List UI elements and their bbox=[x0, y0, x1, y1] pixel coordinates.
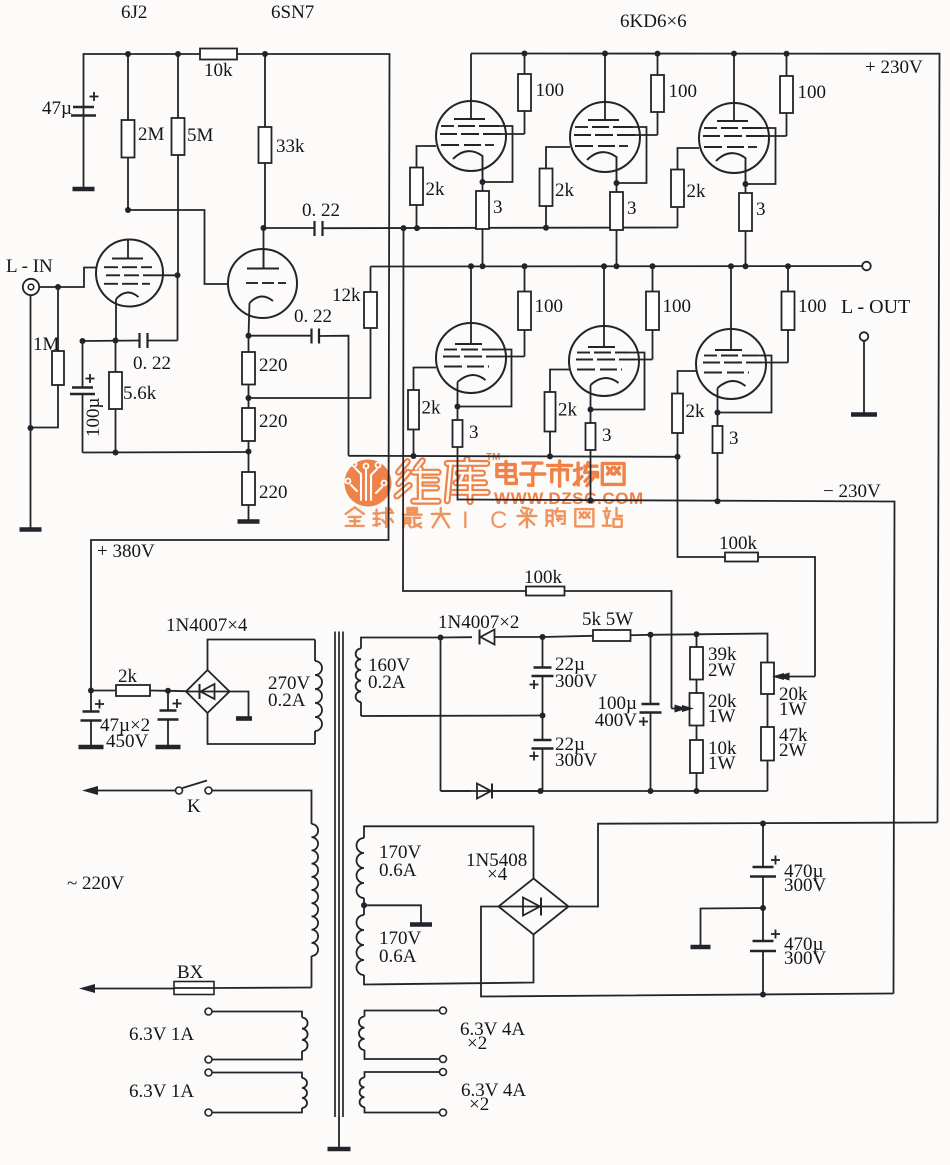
winding 6.3V 1A first bbox=[129, 1008, 308, 1063]
wire plate lead V7 bbox=[603, 266, 605, 326]
svg-text:2k: 2k bbox=[422, 398, 442, 419]
potentiometer 20k 1W right bbox=[761, 663, 808, 721]
wire cathode network to 220 chain bbox=[83, 450, 249, 456]
tube V7 grid g3 row tied to cathode bbox=[577, 353, 645, 410]
resistor 2k grid stopper V3 bbox=[410, 146, 445, 228]
capacitor 0.22 coupling to upper bank bbox=[264, 200, 341, 236]
wire upper grid bus bbox=[323, 225, 678, 231]
resistor 100 screen V7 bbox=[646, 266, 691, 360]
tube V3 screen grid g2 row bbox=[440, 133, 525, 135]
svg-text:3: 3 bbox=[729, 428, 739, 449]
tube V3 control grid g1 row bbox=[441, 144, 494, 146]
svg-text:I: I bbox=[462, 507, 469, 534]
winding 6.3V 4A second bbox=[360, 1069, 527, 1117]
svg-text:300V: 300V bbox=[555, 671, 598, 692]
tube V4 screen grid g2 row bbox=[574, 134, 658, 136]
svg-text:×2: ×2 bbox=[469, 1094, 489, 1115]
svg-text:450V: 450V bbox=[106, 731, 149, 752]
tube V8 screen grid g2 row bbox=[703, 362, 788, 364]
svg-text:3: 3 bbox=[602, 425, 612, 446]
tube V6 plate bbox=[455, 321, 482, 344]
capacitor 0.22 V1 grid bbox=[133, 275, 178, 374]
resistor 100k lower-bank bias feed bbox=[675, 454, 816, 681]
resistor 100 screen V5 bbox=[780, 54, 826, 137]
node V2 cathode bbox=[246, 333, 252, 339]
svg-text:1W: 1W bbox=[708, 753, 736, 774]
resistor 2k supply filter bbox=[91, 666, 168, 696]
resistor 33k bbox=[259, 54, 306, 228]
wire -230V rail bbox=[458, 497, 895, 993]
wire bridge plus to +230 line bbox=[569, 823, 938, 907]
svg-text:100µ: 100µ bbox=[83, 398, 104, 438]
watermark text 电子市场网 bbox=[486, 452, 624, 486]
resistor 5.6k cathode bbox=[109, 341, 157, 453]
capacitor 470µ 300V upper bbox=[750, 821, 827, 909]
tube V1 cathode bbox=[116, 292, 139, 340]
winding primary 220V bbox=[312, 800, 319, 988]
label 6KD6x6 bbox=[620, 11, 687, 32]
resistor 2k grid stopper V4 bbox=[540, 147, 575, 228]
tube V6 6KD6 (lower bank) envelope bbox=[436, 323, 506, 393]
wire +230V rail bbox=[471, 51, 940, 823]
capacitor 47µ filter B bbox=[156, 688, 182, 747]
transformer core bbox=[328, 632, 351, 1150]
wire 2k to bridge left bbox=[168, 690, 186, 692]
rectifier bridge 1N5408x4 bbox=[466, 850, 569, 935]
tube V4 6KD6 (upper bank) envelope bbox=[570, 102, 640, 172]
tube V6 cathode bbox=[455, 375, 486, 410]
label 6J2 bbox=[121, 2, 147, 23]
tube V8 6KD6 (lower bank) envelope bbox=[696, 329, 766, 399]
resistor 1M bbox=[31, 287, 65, 428]
resistor 220 third bbox=[242, 452, 288, 521]
capacitor 100µ cathode bypass bbox=[70, 341, 104, 453]
tube V8 plate bbox=[715, 327, 742, 350]
tube V5 grid g3 row tied to cathode bbox=[704, 128, 776, 184]
svg-text:1N4007×2: 1N4007×2 bbox=[438, 612, 519, 633]
terminal L-OUT bbox=[841, 262, 910, 318]
wire bias top node bbox=[648, 631, 768, 662]
svg-text:+ 230V: + 230V bbox=[865, 57, 923, 78]
node 220 tap1 bbox=[246, 395, 252, 401]
svg-text:L - IN: L - IN bbox=[6, 256, 53, 277]
tube V5 cathode bbox=[716, 153, 749, 187]
svg-text:0.6A: 0.6A bbox=[379, 946, 417, 967]
svg-text:220: 220 bbox=[259, 482, 288, 503]
label 6SN7 bbox=[271, 2, 314, 23]
svg-text:100k: 100k bbox=[524, 567, 563, 588]
wire plate lead V4 bbox=[604, 54, 606, 102]
resistor 100k upper-bank bias feed bbox=[403, 228, 688, 712]
winding 170V 0.6A upper bbox=[357, 826, 534, 905]
resistor 2k grid stopper V6 bbox=[408, 368, 441, 457]
tube V4 cathode bbox=[587, 152, 620, 186]
capacitor 470µ 300V lower bbox=[750, 908, 827, 998]
tube V8 control grid g1 row bbox=[704, 372, 749, 374]
watermark logo circle bbox=[345, 460, 392, 507]
winding 6.3V 4A first bbox=[359, 1007, 525, 1063]
label +380V bbox=[97, 541, 155, 562]
wire switch to primary bbox=[212, 791, 312, 801]
ground input bbox=[20, 527, 42, 532]
resistor 47k 2W bbox=[761, 694, 808, 791]
fuse BX bbox=[79, 962, 312, 995]
tube V5 control grid g1 row bbox=[704, 146, 757, 148]
connector L-IN jack bbox=[6, 256, 53, 295]
tube V8 cathode bbox=[715, 381, 746, 416]
resistor 39k 2W bbox=[690, 634, 737, 693]
resistor 3 cathode V3 bbox=[476, 182, 503, 266]
wire bridge to winding 270V top bbox=[208, 640, 316, 671]
svg-text:400V: 400V bbox=[595, 710, 638, 731]
wire plate lead V6 bbox=[470, 266, 472, 323]
tube V1 grid rows bbox=[104, 267, 178, 284]
svg-text:100: 100 bbox=[798, 82, 827, 103]
svg-text:6J2: 6J2 bbox=[121, 2, 147, 23]
svg-text:2W: 2W bbox=[779, 740, 807, 761]
resistor 100 screen V8 bbox=[782, 266, 827, 363]
wire +380V front-end top rail bbox=[84, 54, 390, 691]
tube V5 6KD6 (upper bank) envelope bbox=[699, 103, 769, 173]
svg-text:1M: 1M bbox=[33, 334, 60, 355]
svg-text:0. 22: 0. 22 bbox=[133, 353, 171, 374]
tube V5 plate bbox=[717, 101, 748, 121]
resistor 12k feedback bbox=[249, 267, 378, 399]
wire doubler return bbox=[440, 638, 442, 792]
node 220 tap2 bbox=[246, 449, 252, 455]
wire plate lead V8 bbox=[730, 266, 732, 329]
node doubler midpoint bbox=[540, 713, 546, 719]
node V2 plate bbox=[261, 225, 267, 231]
node V1 plate bbox=[125, 207, 131, 213]
tube V7 plate bbox=[588, 324, 615, 347]
svg-text:6SN7: 6SN7 bbox=[271, 2, 314, 23]
svg-text:47µ: 47µ bbox=[42, 98, 72, 119]
tube V7 cathode bbox=[588, 378, 619, 413]
svg-text:~ 220V: ~ 220V bbox=[67, 873, 125, 894]
svg-text:300V: 300V bbox=[784, 875, 827, 896]
terminal output ground bbox=[851, 332, 877, 414]
tube V5 screen grid g2 row bbox=[703, 135, 787, 137]
resistor 3 cathode V4 bbox=[610, 183, 637, 266]
node V1 grid2 / 5M bbox=[175, 272, 181, 278]
tube V4 control grid g1 row bbox=[575, 145, 628, 147]
watermark text 全球最大IC采购网站 bbox=[346, 507, 622, 534]
winding 170V 0.6A lower bbox=[357, 905, 534, 984]
watermark text WWW.DZSC.COM bbox=[494, 489, 644, 508]
svg-text:K: K bbox=[187, 796, 201, 817]
wire jack ground to earth bbox=[28, 295, 34, 528]
svg-text:10k: 10k bbox=[204, 60, 233, 81]
resistor 3 cathode V8 bbox=[713, 413, 739, 501]
svg-text:1N4007×4: 1N4007×4 bbox=[166, 615, 248, 636]
node 470µ midpoint / ground bbox=[691, 905, 767, 947]
diode 1N4007 D2 bbox=[441, 784, 541, 799]
resistor 3 cathode V6 bbox=[453, 407, 479, 501]
svg-text:+ 380V: + 380V bbox=[97, 541, 155, 562]
tube V2 plate bbox=[247, 249, 279, 269]
svg-text:0.2A: 0.2A bbox=[268, 690, 306, 711]
svg-text:×4: ×4 bbox=[487, 864, 508, 885]
node 170V center tap bbox=[361, 902, 432, 924]
svg-text:5.6k: 5.6k bbox=[123, 383, 157, 404]
svg-text:100k: 100k bbox=[719, 533, 758, 554]
svg-text:3: 3 bbox=[493, 197, 503, 218]
resistor 5M bbox=[172, 54, 214, 275]
resistor 2M bbox=[122, 54, 165, 210]
potentiometer 20k 1W left bbox=[682, 691, 737, 727]
svg-text:100: 100 bbox=[663, 296, 692, 317]
tube V2 grid row bbox=[246, 282, 286, 284]
tube V3 cathode bbox=[453, 151, 486, 185]
wire bridge right to ground bbox=[230, 692, 253, 719]
resistor 100 screen V3 bbox=[518, 54, 564, 135]
svg-text:6.3V 1A: 6.3V 1A bbox=[129, 1024, 194, 1045]
svg-text:6KD6×6: 6KD6×6 bbox=[620, 11, 687, 32]
capacitor 100µ 400V bbox=[595, 635, 662, 791]
capacitor 0.22 coupling to lower bank bbox=[249, 306, 349, 456]
svg-text:100: 100 bbox=[536, 80, 565, 101]
svg-text:WWW.DZSC.COM: WWW.DZSC.COM bbox=[494, 489, 644, 508]
svg-text:33k: 33k bbox=[276, 136, 305, 157]
wire plate lead V3 bbox=[470, 54, 472, 101]
tube V2 cathode bbox=[249, 296, 274, 335]
tube V7 screen grid g2 row bbox=[576, 359, 653, 361]
label ~220V bbox=[67, 873, 125, 894]
capacitor 22µ 300V upper bbox=[530, 634, 598, 716]
svg-text:12k: 12k bbox=[332, 285, 361, 306]
tube V1 plate bbox=[112, 239, 143, 259]
capacitor 47µ filter A bbox=[79, 691, 105, 748]
svg-text:×2: ×2 bbox=[467, 1033, 487, 1054]
winding 160V 0.2A bbox=[356, 638, 543, 717]
label -230V bbox=[823, 481, 881, 502]
svg-text:100: 100 bbox=[535, 296, 564, 317]
svg-text:300V: 300V bbox=[784, 948, 827, 969]
tube V1 6J2 envelope bbox=[96, 240, 163, 307]
svg-text:220: 220 bbox=[259, 355, 288, 376]
tube V6 screen grid g2 row bbox=[443, 356, 525, 358]
tube V6 control grid g1 row bbox=[444, 366, 489, 368]
tube V8 grid g3 row tied to cathode bbox=[704, 356, 772, 413]
arrow mains upper bbox=[82, 786, 176, 795]
tube V3 grid g3 row tied to cathode bbox=[441, 126, 513, 182]
tube V7 control grid g1 row bbox=[577, 369, 622, 371]
tube V7 6KD6 (lower bank) envelope bbox=[569, 326, 639, 396]
wire bridge to winding 270V bottom bbox=[208, 713, 316, 744]
svg-text:2W: 2W bbox=[708, 660, 736, 681]
rectifier bridge 1N4007x4 bbox=[166, 615, 248, 713]
svg-text:2M: 2M bbox=[138, 124, 165, 145]
resistor 100 screen V4 bbox=[651, 54, 697, 136]
resistor 220 second bbox=[242, 398, 288, 452]
svg-text:6.3V 1A: 6.3V 1A bbox=[129, 1081, 194, 1102]
svg-text:0.6A: 0.6A bbox=[379, 860, 417, 881]
svg-text:3: 3 bbox=[756, 199, 766, 220]
resistor 2k grid stopper V8 bbox=[672, 371, 705, 457]
switch K bbox=[176, 781, 213, 818]
label 47µx2 450V bbox=[100, 715, 150, 752]
svg-text:0. 22: 0. 22 bbox=[294, 306, 332, 327]
capacitor 47µ input decoupling bbox=[42, 92, 98, 189]
resistor 220 first bbox=[242, 336, 288, 398]
svg-text:2k: 2k bbox=[686, 401, 706, 422]
svg-text:3: 3 bbox=[627, 198, 637, 219]
svg-text:1W: 1W bbox=[708, 706, 736, 727]
tube V2 6SN7 envelope bbox=[228, 249, 297, 318]
resistor 10k bbox=[200, 49, 237, 82]
tube V6 grid g3 row tied to cathode bbox=[444, 350, 512, 407]
svg-text:TM: TM bbox=[486, 452, 500, 463]
watermark text 维库 outlined bbox=[397, 459, 487, 502]
svg-text:− 230V: − 230V bbox=[823, 481, 881, 502]
svg-text:0. 22: 0. 22 bbox=[302, 200, 340, 221]
svg-text:5M: 5M bbox=[187, 125, 214, 146]
resistor 10k 1W bbox=[690, 726, 737, 792]
node +380 / 2k bbox=[88, 688, 94, 694]
svg-text:2k: 2k bbox=[426, 179, 446, 200]
svg-text:1W: 1W bbox=[779, 699, 807, 720]
wire V1 cathode node bbox=[80, 338, 139, 345]
capacitor 22µ 300V lower bbox=[530, 716, 598, 792]
resistor 3 cathode V7 bbox=[586, 410, 612, 501]
node rail-2M bbox=[125, 51, 131, 57]
resistor 3 cathode V5 bbox=[739, 184, 766, 266]
tube V3 6KD6 (upper bank) envelope bbox=[436, 101, 506, 171]
winding 270V 0.2A bbox=[268, 640, 322, 745]
wire V1 plate to V2 grid bbox=[128, 210, 229, 284]
svg-text:5k 5W: 5k 5W bbox=[582, 609, 633, 630]
resistor 2k grid stopper V5 bbox=[671, 148, 706, 228]
svg-text:C: C bbox=[490, 507, 507, 534]
svg-text:300V: 300V bbox=[555, 750, 598, 771]
winding 6.3V 1A second bbox=[129, 1069, 307, 1116]
wire input to grid bbox=[40, 268, 98, 291]
svg-text:100: 100 bbox=[798, 296, 827, 317]
svg-text:2k: 2k bbox=[118, 666, 138, 687]
wire bridge minus to -230 line bbox=[481, 907, 894, 997]
svg-text:2k: 2k bbox=[687, 181, 707, 202]
resistor 2k grid stopper V7 bbox=[545, 370, 578, 457]
label +230V bbox=[865, 57, 923, 78]
resistor 100 screen V6 bbox=[518, 266, 563, 357]
svg-text:2k: 2k bbox=[555, 180, 575, 201]
node rail-33k bbox=[262, 51, 268, 57]
svg-text:100: 100 bbox=[669, 81, 698, 102]
ground 220 chain bbox=[238, 519, 260, 524]
svg-text:2k: 2k bbox=[558, 400, 578, 421]
node rail-5M bbox=[175, 51, 181, 57]
wire V2 plate lead bbox=[263, 228, 265, 269]
wire output rail L-OUT bbox=[371, 263, 863, 269]
svg-text:BX: BX bbox=[177, 962, 204, 983]
tube V4 grid g3 row tied to cathode bbox=[575, 127, 647, 183]
tube V3 plate bbox=[454, 99, 485, 119]
svg-text:L - OUT: L - OUT bbox=[841, 296, 910, 318]
svg-text:220: 220 bbox=[259, 411, 288, 432]
diode 1N4007 D1 bbox=[438, 612, 543, 645]
wire lower grid bus bbox=[349, 453, 678, 459]
svg-text:3: 3 bbox=[469, 422, 479, 443]
wire bias bottom rail bbox=[441, 788, 768, 794]
wire plate lead V5 bbox=[733, 54, 735, 103]
tube V4 plate bbox=[588, 100, 619, 120]
svg-text:0.2A: 0.2A bbox=[368, 672, 406, 693]
resistor 5k 5W bbox=[543, 609, 651, 641]
